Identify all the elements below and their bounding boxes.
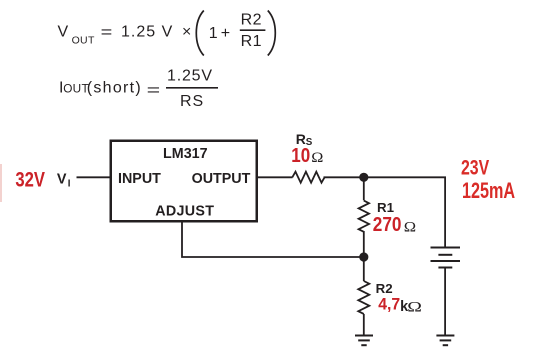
- ground (R2): [355, 336, 373, 346]
- wire node B down to R2: [363, 257, 365, 281]
- svg-text:32V: 32V: [15, 169, 45, 192]
- value 270 ohm: [373, 213, 416, 236]
- resistor R2: [358, 281, 369, 314]
- svg-text:=: =: [147, 81, 161, 99]
- svg-text:125mA: 125mA: [462, 180, 515, 204]
- svg-text:Ω: Ω: [404, 220, 416, 236]
- svg-text:I: I: [68, 178, 71, 189]
- svg-text:R2: R2: [241, 11, 262, 28]
- svg-text:ADJUST: ADJUST: [155, 203, 214, 219]
- junction node B: [359, 252, 368, 261]
- net label VI: [57, 172, 71, 190]
- svg-text:Ω: Ω: [407, 298, 422, 315]
- junction node A: [359, 173, 368, 182]
- svg-text:V: V: [58, 24, 69, 41]
- wire output to RS: [258, 176, 293, 178]
- svg-text:1.25 V: 1.25 V: [121, 24, 173, 41]
- svg-text:Ω: Ω: [311, 150, 323, 166]
- svg-text:=: =: [101, 23, 113, 41]
- formula Iout(short): [59, 68, 218, 111]
- svg-text:×: ×: [182, 24, 191, 41]
- svg-text:R1: R1: [241, 33, 262, 50]
- wire node A to battery: [444, 177, 446, 247]
- regulator U1 LM317: [111, 141, 257, 222]
- svg-text:V: V: [57, 172, 67, 188]
- wire input: [77, 176, 111, 178]
- stray red mark at left edge: [0, 164, 2, 202]
- ground (battery): [436, 336, 454, 346]
- svg-text:23V: 23V: [461, 155, 490, 179]
- label RS: [296, 131, 313, 148]
- svg-text:INPUT: INPUT: [118, 171, 161, 187]
- resistor R1: [359, 201, 369, 232]
- svg-text:R2: R2: [376, 281, 393, 296]
- svg-text:RS: RS: [180, 93, 204, 110]
- formula Vout: [58, 11, 276, 56]
- svg-text:OUT: OUT: [72, 34, 95, 46]
- svg-text:OUTPUT: OUTPUT: [192, 171, 251, 187]
- svg-text:270: 270: [373, 213, 402, 236]
- svg-text:4,7: 4,7: [378, 295, 400, 313]
- svg-text:OUT: OUT: [63, 82, 89, 96]
- svg-text:LM317: LM317: [163, 146, 208, 162]
- wire battery to ground: [444, 269, 446, 336]
- wire node A down to R1: [363, 177, 365, 200]
- svg-text:+: +: [221, 25, 230, 42]
- wire adjust: [182, 222, 364, 257]
- wire RS to node A: [324, 176, 447, 178]
- svg-text:10: 10: [291, 144, 310, 167]
- resistor RS: [292, 172, 324, 183]
- value 10 ohm: [291, 144, 323, 167]
- wire R2 to ground: [363, 314, 365, 336]
- svg-text:(short): (short): [87, 80, 142, 97]
- svg-text:1: 1: [209, 25, 218, 42]
- battery B1: [431, 248, 461, 268]
- value 4,7 kohm: [378, 295, 422, 315]
- svg-text:1.25V: 1.25V: [167, 68, 213, 85]
- wire R1 to node B: [363, 231, 365, 257]
